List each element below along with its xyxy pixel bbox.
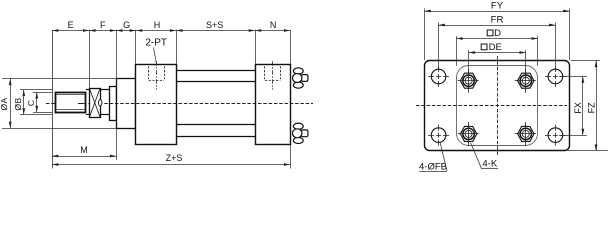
svg-text:M: M	[80, 145, 88, 155]
svg-text:FY: FY	[491, 0, 504, 11]
svg-text:4-ØFB: 4-ØFB	[419, 162, 447, 173]
svg-text:C: C	[26, 100, 36, 106]
svg-text:ØA: ØA	[0, 97, 9, 110]
svg-text:2-PT: 2-PT	[145, 38, 167, 49]
svg-text:4-K: 4-K	[482, 159, 497, 170]
svg-text:N: N	[270, 20, 277, 30]
svg-text:S+S: S+S	[206, 20, 223, 30]
svg-text:H: H	[154, 20, 161, 30]
svg-text:E: E	[68, 20, 74, 30]
svg-text:G: G	[123, 20, 130, 30]
svg-text:F: F	[100, 20, 106, 30]
svg-text:D: D	[494, 28, 501, 39]
svg-text:FX: FX	[573, 102, 583, 114]
svg-text:FZ: FZ	[586, 102, 596, 113]
svg-text:Z+S: Z+S	[166, 153, 183, 163]
svg-text:ØB: ØB	[13, 97, 23, 110]
svg-text:DE: DE	[489, 42, 502, 53]
svg-text:FR: FR	[491, 14, 504, 25]
